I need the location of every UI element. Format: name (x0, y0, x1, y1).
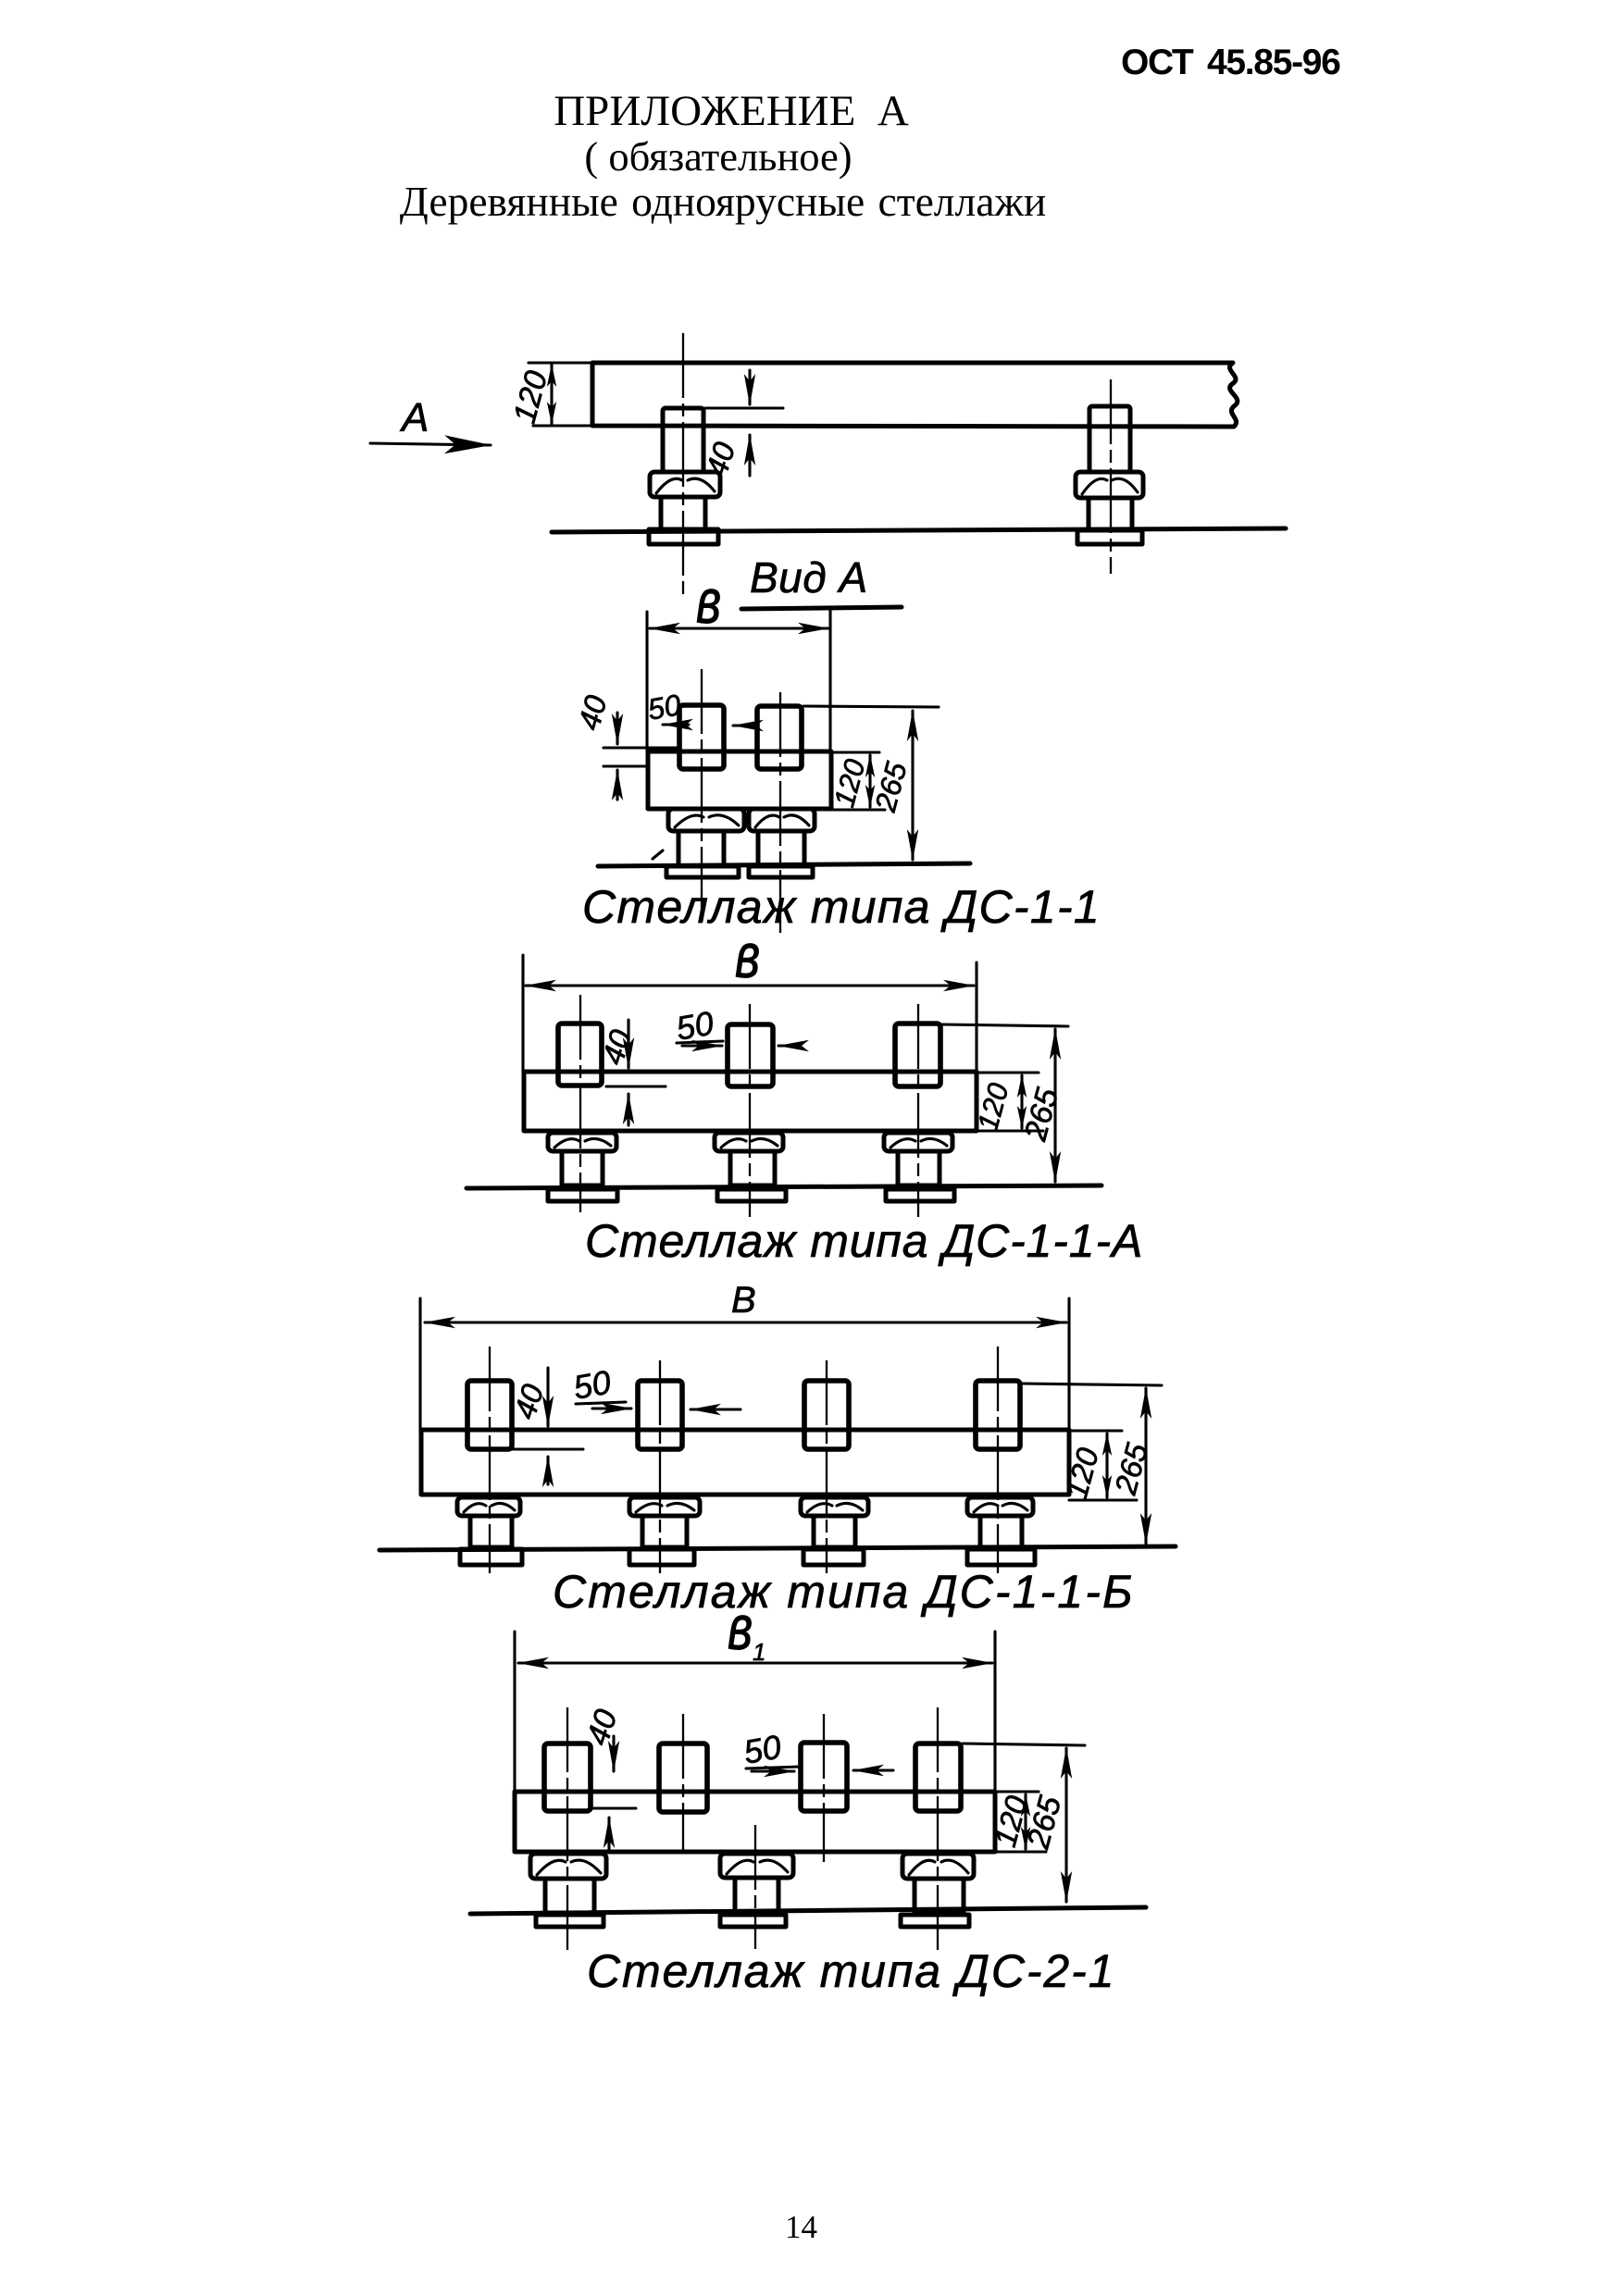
dim 265 extension line (803, 706, 939, 707)
post 2 (757, 706, 802, 769)
support 2 block (715, 1133, 783, 1151)
dim 50 underline (746, 1767, 800, 1769)
support 1 block (548, 1133, 616, 1151)
dim v left extension (645, 612, 648, 751)
svg-text:( обязательное): ( обязательное) (584, 133, 852, 180)
support 1 block (650, 472, 720, 497)
middle support center line (754, 1825, 756, 1949)
post 1 center line (566, 1707, 568, 1951)
support 3 block (884, 1133, 952, 1151)
dim 120 extension lines (831, 751, 879, 753)
support 2 block (749, 809, 815, 831)
dim 40 upper arrow (627, 1020, 629, 1068)
post 3 (895, 1024, 940, 1086)
svg-text:в: в (735, 920, 760, 990)
support 4 block (967, 1497, 1033, 1516)
post 4 (976, 1381, 1020, 1449)
support 1 leg (678, 831, 724, 866)
dim 50 arrows (592, 1407, 631, 1409)
drawing 5: rack DS-2-1 (470, 1592, 1146, 1997)
post 4 center line (997, 1347, 999, 1573)
svg-text:Стеллаж типа ДС-1-1-А: Стеллаж типа ДС-1-1-А (585, 1215, 1143, 1267)
dim 40 upper arrow (616, 713, 618, 744)
svg-text:Стеллаж типа ДС-1-1-Б: Стеллаж типа ДС-1-1-Б (553, 1566, 1135, 1618)
support 2 base pad (717, 1189, 786, 1201)
dim 120 extension lines (977, 1071, 1039, 1074)
beam (421, 1430, 1069, 1495)
beam (cross member) (648, 751, 831, 809)
dim V line (425, 1321, 1066, 1323)
dim 40 lower arrow (546, 1457, 549, 1484)
support 1 block (668, 809, 744, 831)
support 2 leg (642, 1516, 687, 1547)
post 1 center line (682, 333, 684, 600)
ground line (467, 1185, 1101, 1188)
post 2 (638, 1381, 682, 1449)
support 1 base pad (649, 529, 718, 544)
stray tick (653, 850, 663, 859)
dim 40 extension line (591, 1806, 636, 1809)
post 1 (679, 705, 724, 769)
post 1 center line (489, 1347, 491, 1573)
dim 40 upper arrow (546, 1368, 549, 1426)
dim 40 upper arrow (748, 370, 751, 404)
dim 50 underline (576, 1402, 626, 1404)
post 1 center line (701, 669, 703, 921)
drawing 2: view A, rack DS-1-1 (571, 553, 1101, 933)
support 2 base pad (629, 1549, 694, 1565)
support 1 base pad (536, 1915, 604, 1927)
dim 265 extension line (963, 1744, 1085, 1745)
support 2 base pad (720, 1915, 786, 1927)
svg-text:ОСТ 45.85-96: ОСТ 45.85-96 (1121, 43, 1340, 82)
dim 120 line (1105, 1433, 1108, 1497)
dim 265 line (911, 711, 914, 860)
post 4 center line (937, 1707, 939, 1951)
support 3 leg (915, 1879, 964, 1913)
post 1 center line (579, 995, 581, 1212)
post 2 (728, 1024, 773, 1086)
post 1 (558, 1024, 602, 1086)
support 2 base pad (1077, 530, 1142, 544)
ground line (598, 863, 970, 866)
support 1 leg (661, 497, 705, 529)
svg-text:В: В (731, 1280, 756, 1321)
dim 120 line (868, 755, 871, 807)
drawing 1: rack side view (370, 333, 1286, 600)
dim 40 lower arrow (607, 1818, 610, 1849)
dim 40 lower arrow (627, 1094, 629, 1125)
post 1 (467, 1381, 512, 1449)
dim 50 underline (677, 1041, 723, 1043)
beam (side view) (592, 363, 1238, 427)
drawing 3: rack DS-1-1-A (467, 920, 1143, 1267)
dim 40 extension lines (604, 746, 678, 749)
dim v1 left extension (513, 1632, 516, 1793)
dim v line (526, 984, 974, 987)
support 2 block (720, 1854, 793, 1878)
ground line (552, 528, 1286, 532)
dim 40 upper arrow (612, 1736, 615, 1771)
post 1 top extension line (705, 406, 783, 409)
svg-text:в: в (728, 1592, 753, 1662)
post 2 center line (749, 1004, 751, 1217)
dim v1 right extension (993, 1632, 996, 1793)
svg-text:Стеллаж типа ДС-2-1: Стеллаж типа ДС-2-1 (587, 1945, 1115, 1997)
dim 120 line (1024, 1794, 1027, 1849)
support 1 block (530, 1854, 606, 1879)
support 2 leg (730, 1151, 775, 1185)
support 2 leg (735, 1878, 778, 1913)
support 1 base pad (460, 1549, 522, 1565)
beam (524, 1072, 977, 1131)
dim v line (650, 627, 828, 629)
support 2 leg (1089, 498, 1132, 530)
dim 40 lower arrow (748, 435, 751, 476)
post 3 (804, 1381, 849, 1449)
support 4 leg (980, 1516, 1022, 1547)
support 3 block (801, 1497, 868, 1516)
post 1 (side view) (663, 408, 703, 472)
dim v left extension (521, 955, 524, 1072)
dim 265 extension line (942, 1024, 1068, 1026)
post 3 center line (823, 1714, 825, 1862)
dim 265 extension line (1022, 1384, 1162, 1385)
post 2 center line (1110, 379, 1112, 574)
svg-text:14: 14 (785, 2209, 817, 2245)
view title underline (741, 607, 902, 609)
dim 50 arrows (682, 1044, 722, 1047)
svg-text:50: 50 (645, 688, 684, 726)
dim 265 line (1064, 1748, 1067, 1902)
dim 40 extension line (513, 1447, 583, 1450)
svg-text:50: 50 (570, 1363, 614, 1407)
dim 50 arrows (752, 1769, 794, 1772)
post 3 center line (917, 1004, 919, 1217)
svg-text:Вид А: Вид А (750, 553, 868, 602)
post 2 center line (682, 1714, 684, 1852)
support 3 block (902, 1854, 974, 1879)
dim 120 extension lines (529, 361, 592, 364)
support 2 leg (758, 831, 804, 866)
support 1 leg (545, 1879, 594, 1913)
support 2 block (1076, 472, 1143, 498)
post 2 center line (659, 1360, 661, 1573)
support 1 base pad (666, 866, 739, 877)
svg-text:в: в (696, 565, 721, 636)
post 2 (659, 1744, 707, 1812)
support 1 leg (470, 1516, 512, 1547)
beam (515, 1792, 995, 1852)
dim 40 extension line (606, 1085, 666, 1087)
post 1 (544, 1744, 591, 1811)
dim 40 lower arrow (616, 770, 618, 800)
svg-text:50: 50 (741, 1728, 784, 1771)
post 2 (side view) (1089, 406, 1130, 472)
svg-text:Деревянные одноярусные стеллаж: Деревянные одноярусные стеллажи (400, 178, 1046, 225)
dim 120 line (550, 365, 553, 424)
drawing 4: rack DS-1-1-B (380, 1280, 1176, 1618)
dim v right extension (975, 962, 977, 1072)
support 3 leg (814, 1516, 855, 1547)
ground line (470, 1907, 1146, 1914)
support 1 block (457, 1497, 520, 1516)
dim 50 line with arrows (663, 723, 689, 726)
dim 265 line (1053, 1029, 1056, 1182)
dim 120 extension lines (1069, 1429, 1122, 1432)
dim 120 extension lines (995, 1790, 1039, 1793)
dim V right extension (1067, 1298, 1070, 1433)
dim v1 line (518, 1661, 992, 1664)
dim V left extension (418, 1298, 421, 1433)
view direction arrow (370, 443, 491, 445)
dim 265 line (1144, 1388, 1147, 1544)
ground line (380, 1546, 1176, 1550)
post 2 center line (779, 692, 781, 933)
dim v right extension (828, 609, 831, 751)
support 4 base pad (967, 1549, 1035, 1565)
support 2 block (629, 1497, 700, 1516)
support 3 base pad (803, 1549, 864, 1565)
dim 120 line (1020, 1075, 1023, 1128)
post 3 center line (826, 1360, 828, 1573)
support 3 leg (898, 1151, 940, 1185)
support 3 base pad (901, 1915, 969, 1927)
post 4 (915, 1744, 961, 1811)
support 2 base pad (749, 866, 813, 877)
svg-text:Стеллаж типа ДС-1-1: Стеллаж типа ДС-1-1 (582, 881, 1101, 933)
post 3 (801, 1743, 847, 1811)
support 1 leg (562, 1151, 603, 1185)
svg-text:А: А (399, 395, 429, 441)
svg-text:ПРИЛОЖЕНИЕ А: ПРИЛОЖЕНИЕ А (554, 87, 909, 135)
support 1 base pad (548, 1189, 617, 1201)
support 3 base pad (886, 1189, 954, 1201)
